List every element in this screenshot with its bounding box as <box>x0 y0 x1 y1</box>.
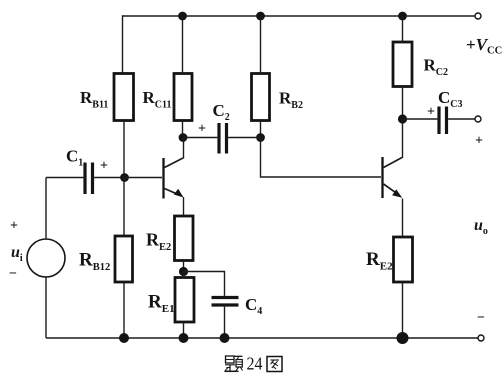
svg-text:RC2: RC2 <box>424 56 449 79</box>
node dot: RB12 on rail <box>119 333 129 343</box>
resistor RE1 <box>148 278 194 323</box>
wire RC2 bottom to collector node <box>402 87 404 120</box>
node dot: top of RC2 <box>398 12 407 21</box>
svg-text:−: − <box>477 311 485 326</box>
wire C2 to RB2 node <box>228 137 260 139</box>
node dot: C4 on rail <box>220 333 230 343</box>
capacitor CC3 <box>427 88 463 134</box>
resistor RB11 <box>80 74 134 121</box>
svg-text:ui: ui <box>11 244 23 264</box>
node dot: RE2/RE1/C4 junction <box>179 267 188 276</box>
wire C4 bottom to rail <box>224 307 226 338</box>
wire RB12 bottom to rail <box>123 282 125 338</box>
svg-text:RC11: RC11 <box>143 88 172 111</box>
wire junction to C4 top <box>184 272 225 296</box>
wire RE2 bottom to rail <box>402 282 404 338</box>
node dot: RE1 on rail <box>179 333 189 343</box>
node dot: top of RC11 <box>178 12 187 21</box>
svg-text:+: + <box>475 134 483 149</box>
wire RB2 top <box>260 16 262 74</box>
wire junction to RE1 top <box>183 272 185 278</box>
svg-text:uo: uo <box>474 217 488 237</box>
wire RB11 bottom to base node <box>123 121 125 178</box>
wire Q1 emitter down to RE2 <box>183 197 185 216</box>
resistor RC11 <box>143 74 193 121</box>
wire CC3 to output terminal <box>448 118 475 120</box>
node dot: C2 right / RB2 bottom <box>256 133 265 142</box>
wire source top up to C1 row <box>45 178 47 240</box>
wire Q2 emitter down to RE2 <box>402 199 404 238</box>
svg-text:+: + <box>10 219 18 234</box>
resistor RB2 <box>252 74 303 121</box>
wire top-left corner down to RB11 <box>122 15 124 73</box>
wire Q1 collector up to node <box>183 138 185 159</box>
node dot: Q1 base / C1 / RB11 / RB12 <box>120 173 129 182</box>
terminal +Vcc open circle <box>475 13 481 19</box>
node dot: top of RB2 <box>256 12 265 21</box>
terminal output open circle (bottom) <box>478 335 484 341</box>
wire base node to RB12 top <box>123 178 125 237</box>
svg-text:+: + <box>427 105 435 120</box>
resistor RB12 <box>79 236 133 282</box>
wire RE1 bottom to ground rail <box>183 322 185 338</box>
svg-text:−: − <box>9 267 17 282</box>
resistor RC2 <box>393 42 448 87</box>
wire top supply rail <box>122 15 475 17</box>
svg-text:RB2: RB2 <box>279 89 303 112</box>
resistor RE2 (second stage) <box>366 237 413 282</box>
source ui circle <box>27 239 65 277</box>
transistor Q2 <box>383 157 403 198</box>
svg-text:C4: C4 <box>245 295 262 317</box>
wire Q2 collector up to node <box>402 119 404 158</box>
svg-text:RE2: RE2 <box>146 230 171 254</box>
node dot: Q2 collector / CC3 left <box>398 114 407 123</box>
wire source bottom to ground rail <box>45 277 47 338</box>
题 left-top 日 <box>226 356 235 363</box>
capacitor C1 <box>66 147 108 195</box>
capacitor C4 <box>212 295 263 317</box>
wire collector node to C2 <box>183 137 217 139</box>
node dot: RE2 on rail <box>397 332 409 344</box>
svg-text:C1: C1 <box>66 147 83 169</box>
terminal output open circle (top) <box>475 116 481 122</box>
svg-text:RB11: RB11 <box>80 88 108 111</box>
wire RC11 top <box>182 16 184 74</box>
wire RC11 bottom to collector node <box>182 121 184 138</box>
svg-text:24: 24 <box>247 353 263 373</box>
svg-text:+: + <box>100 159 108 174</box>
wire base node to Q1 base <box>125 177 163 179</box>
wire bottom ground rail <box>46 337 478 339</box>
capacitor C2 <box>198 101 230 154</box>
svg-text:RE2: RE2 <box>366 249 393 273</box>
wire C1 to base node <box>94 177 124 179</box>
wire RC2 top <box>402 16 404 42</box>
svg-text:C2: C2 <box>213 101 230 123</box>
svg-text:CC3: CC3 <box>438 88 463 110</box>
node dot: Q1 collector / C2 left <box>179 133 188 142</box>
svg-text:+VCC: +VCC <box>466 35 502 57</box>
svg-text:RE1: RE1 <box>148 292 175 316</box>
wire RE2 bottom to junction <box>183 261 185 272</box>
resistor RE2 (first stage) <box>146 216 193 261</box>
wire RB2 bottom to C2 node <box>260 121 262 138</box>
wire source top to C1 <box>46 177 83 179</box>
svg-text:+: + <box>198 122 206 137</box>
wire RB2 node down and right to Q2 base <box>261 138 382 178</box>
题 right 页 <box>235 355 243 357</box>
transistor Q1 <box>164 158 184 199</box>
wire collector node to CC3 <box>403 118 438 120</box>
题 left lower 疋 <box>225 364 235 366</box>
svg-text:RB12: RB12 <box>79 250 110 274</box>
caption: 题 24 图 <box>225 353 283 373</box>
